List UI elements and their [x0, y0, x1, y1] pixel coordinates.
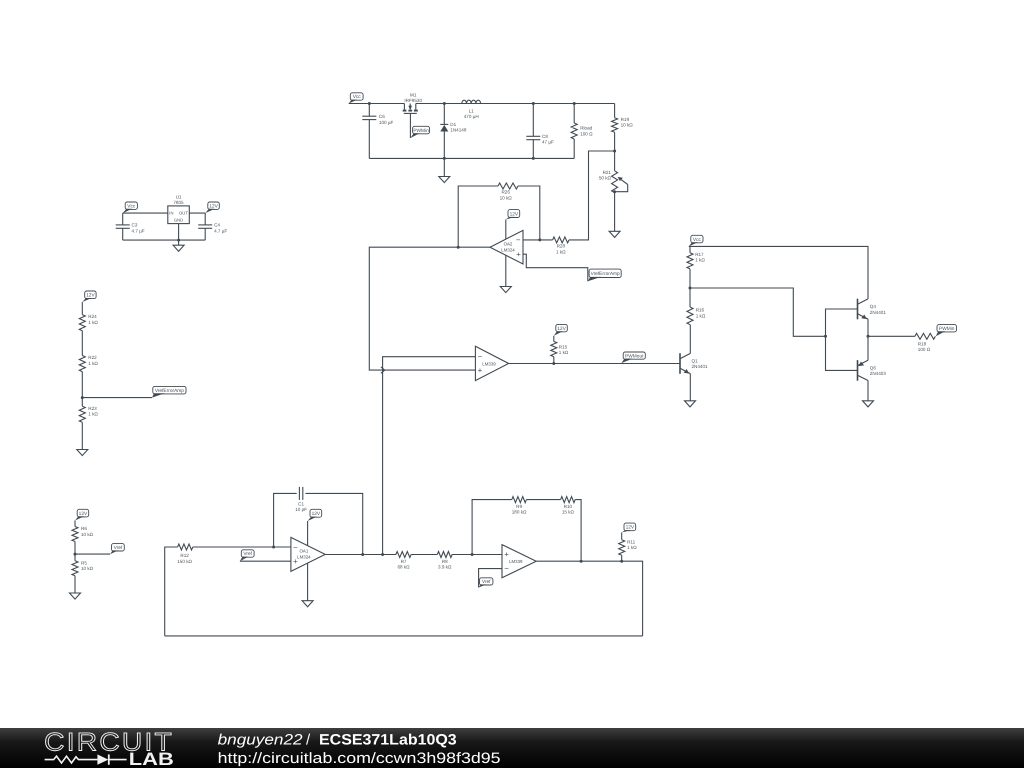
- wire buck bottom rail: [369, 157, 574, 159]
- wire R5 to ground: [74, 576, 76, 593]
- wire OA2 V- pin to ground: [505, 255, 507, 286]
- svg-text:12V: 12V: [79, 511, 88, 517]
- svg-text:R28: R28: [557, 244, 566, 249]
- junction R10/output: [580, 560, 583, 563]
- svg-text:12V: 12V: [510, 211, 519, 217]
- junction C1 tap: [272, 546, 275, 549]
- wire R9-R10: [526, 499, 560, 501]
- potentiometer R21 50k: [614, 151, 616, 171]
- resistor R28 1k: [553, 237, 569, 243]
- resistor R11 1k pull-up: [624, 523, 636, 531]
- svg-text:1N4148: 1N4148: [450, 128, 467, 133]
- resistor R24 1k: [79, 315, 85, 331]
- wire R9 feedback left leg: [472, 500, 512, 555]
- svg-text:PWMin: PWMin: [939, 326, 955, 332]
- wire base rail: [826, 309, 858, 370]
- capacitor C8 47uF: [532, 104, 534, 137]
- net flag PWMin (driver out): [937, 325, 957, 332]
- svg-text:1 kΩ: 1 kΩ: [88, 412, 98, 417]
- resistor R8 3.9k: [437, 552, 452, 558]
- net flag VrefErrorAmp (divider): [153, 386, 186, 394]
- junction push-pull output: [867, 335, 870, 338]
- resistor R17 1k: [687, 253, 693, 269]
- svg-text:Vref: Vref: [114, 545, 123, 551]
- svg-text:Vref: Vref: [243, 551, 252, 557]
- wire C1 right leg: [306, 493, 363, 554]
- transistor Q1 2N4401: [679, 353, 681, 374]
- svg-text:1 kΩ: 1 kΩ: [88, 320, 98, 325]
- wire crossing hop: [381, 367, 385, 373]
- svg-text:2N4401: 2N4401: [692, 364, 709, 369]
- op-amp OA1 LM324: [291, 537, 325, 571]
- svg-text:R10: R10: [564, 504, 573, 509]
- wire comparator2 output: [536, 561, 642, 636]
- junction C8 top: [532, 102, 535, 105]
- svg-text:R19: R19: [621, 117, 630, 122]
- svg-text:D1: D1: [450, 122, 456, 127]
- svg-text:M1: M1: [410, 92, 417, 97]
- comparator U LM339 (oscillator): [502, 545, 536, 578]
- svg-text:Q4: Q4: [870, 304, 877, 309]
- junction C6 top: [368, 102, 371, 105]
- svg-text:Vcc: Vcc: [693, 237, 702, 243]
- resistor R9 180k: [512, 497, 527, 503]
- capacitor C1 10pF: [298, 487, 300, 500]
- svg-text:150 kΩ: 150 kΩ: [177, 559, 192, 564]
- wire divider tap to R28 column: [569, 151, 615, 240]
- svg-text:U1: U1: [176, 195, 182, 200]
- net flag Vcc (buck input): [350, 93, 363, 100]
- junction R26 feedback tap: [457, 246, 460, 249]
- svg-text:OA2: OA2: [504, 242, 513, 247]
- junction D1 bottom: [443, 157, 446, 160]
- net flag PWMin (gate): [413, 126, 430, 134]
- wire R6 to tap: [74, 542, 76, 561]
- wire tap to VrefErrorAmp flag: [82, 397, 152, 399]
- svg-text:L1: L1: [469, 108, 475, 113]
- junction feedback divider: [613, 150, 616, 153]
- svg-text:12V: 12V: [209, 203, 218, 209]
- svg-text:7805: 7805: [173, 200, 184, 205]
- svg-text:Q1: Q1: [692, 358, 699, 363]
- svg-text:VrefErrorAmp: VrefErrorAmp: [155, 388, 184, 394]
- svg-text:LAB: LAB: [129, 749, 174, 768]
- svg-text:12V: 12V: [557, 326, 566, 332]
- svg-text:4.7 µF: 4.7 µF: [132, 228, 145, 233]
- svg-text:1 kΩ: 1 kΩ: [696, 313, 706, 318]
- ground (OA1): [302, 601, 313, 607]
- svg-text:R6: R6: [81, 526, 87, 531]
- svg-text:+: +: [504, 550, 509, 559]
- svg-text:VrefErrorAmp: VrefErrorAmp: [591, 271, 620, 277]
- op-amp OA2 LM324 (points left): [490, 230, 523, 264]
- wire M1 gate: [409, 113, 411, 138]
- wire R12 to OA1 minus: [193, 546, 291, 548]
- net flag 12V (7805 out): [208, 202, 220, 209]
- wire R24-R22: [81, 331, 83, 356]
- resistor R5 10k: [72, 561, 78, 576]
- svg-text:http://circuitlab.com/ccwn3h98: http://circuitlab.com/ccwn3h98f3d95: [218, 750, 501, 767]
- ground (buck): [439, 177, 450, 183]
- svg-text:10 kΩ: 10 kΩ: [500, 195, 513, 200]
- svg-text:2N4403: 2N4403: [870, 371, 887, 376]
- junction Vtri/output: [381, 553, 384, 556]
- wire 12V to R6: [74, 521, 76, 527]
- net flag Vref (OA1 +): [241, 550, 254, 557]
- wire R17 bottom: [689, 269, 691, 288]
- svg-text:Vcc: Vcc: [127, 203, 136, 209]
- svg-text:100 Ω: 100 Ω: [918, 347, 931, 352]
- resistor R19 10k: [614, 104, 616, 118]
- junction OA2 minus / R26: [538, 238, 541, 241]
- svg-text:Rload: Rload: [580, 126, 592, 131]
- svg-text:R21: R21: [603, 170, 612, 175]
- junction R11/output: [620, 560, 623, 563]
- svg-text:−: −: [478, 352, 483, 361]
- resistor R23 1k: [79, 406, 85, 422]
- ground (Q1): [685, 401, 696, 407]
- wire comparator2 minus to Vref: [479, 569, 502, 588]
- svg-text:C8: C8: [542, 134, 548, 139]
- svg-text:1 kΩ: 1 kΩ: [559, 350, 569, 355]
- svg-text:3.9 kΩ: 3.9 kΩ: [438, 565, 452, 570]
- wire Vcc to IN: [123, 212, 168, 214]
- svg-text:50 kΩ: 50 kΩ: [599, 176, 612, 181]
- wire R26 left leg: [458, 186, 498, 247]
- inductor L1 470uH: [462, 100, 481, 103]
- ground (Q6): [863, 401, 874, 407]
- resistor R18 100: [915, 333, 936, 339]
- ground (R21): [609, 231, 620, 237]
- svg-text:R16: R16: [696, 308, 705, 313]
- wire output to R18: [868, 335, 915, 337]
- net flag 12V (OA2 power): [508, 210, 520, 218]
- junction R15/output: [552, 362, 555, 365]
- capacitor C6: [368, 104, 370, 117]
- net flag VrefErrorAmp (OA2 +): [589, 269, 621, 277]
- resistor R7 68k: [396, 552, 411, 558]
- svg-text:1 kΩ: 1 kΩ: [627, 545, 637, 550]
- svg-text:+: +: [516, 250, 521, 259]
- svg-text:Q6: Q6: [870, 365, 877, 370]
- junction Rload top: [573, 102, 576, 105]
- svg-text:470 µH: 470 µH: [464, 114, 479, 119]
- svg-text:10 pF: 10 pF: [295, 507, 307, 512]
- ground (ref divider): [77, 450, 88, 456]
- wire R7-R8: [411, 554, 437, 556]
- svg-text:GND: GND: [174, 217, 183, 222]
- svg-text:68 kΩ: 68 kΩ: [397, 565, 410, 570]
- svg-text:R9: R9: [516, 504, 522, 509]
- svg-text:IN: IN: [169, 211, 173, 216]
- wire 12V to R24: [81, 302, 83, 315]
- wire R23 to ground: [81, 422, 83, 449]
- wire left feedback rail: [165, 547, 178, 636]
- resistor R16 1k: [687, 307, 693, 325]
- junction base rail: [824, 335, 827, 338]
- svg-text:R7: R7: [401, 559, 407, 564]
- wire R26 right leg: [518, 186, 540, 240]
- wire OA1 V+ pin: [307, 521, 309, 546]
- svg-text:10 kΩ: 10 kΩ: [621, 123, 634, 128]
- svg-text:OA1: OA1: [300, 549, 309, 554]
- resistor R10 15k: [561, 497, 576, 503]
- resistor R6 10k: [72, 527, 78, 542]
- ground (7805): [173, 245, 184, 251]
- junction C1/output: [361, 553, 364, 556]
- resistor R15 1k pull-up: [556, 324, 568, 331]
- svg-text:C3: C3: [132, 223, 138, 228]
- svg-text:R12: R12: [180, 553, 189, 558]
- svg-text:R11: R11: [627, 539, 636, 544]
- svg-text:R17: R17: [695, 252, 704, 257]
- wire ground stem (buck): [443, 158, 445, 176]
- junction R21 wiper: [613, 190, 616, 193]
- svg-text:10 kΩ: 10 kΩ: [81, 566, 94, 571]
- wire Vref to OA1 plus: [240, 560, 291, 562]
- svg-text:1 kΩ: 1 kΩ: [695, 258, 705, 263]
- svg-text:LM324: LM324: [501, 247, 515, 252]
- wire OA2 minus input: [523, 239, 553, 241]
- wire C1 left leg: [274, 493, 297, 547]
- net flag Vcc (7805 in): [125, 202, 137, 209]
- wire 7805 bottom rail: [123, 239, 206, 241]
- svg-text:−: −: [516, 236, 521, 245]
- wire R8 to comparator plus: [452, 554, 502, 556]
- IC U1 7805: [168, 206, 190, 224]
- svg-text:bnguyen22: bnguyen22: [218, 731, 304, 748]
- wire Q6 emitter to output node: [867, 336, 869, 360]
- svg-text:C4: C4: [214, 223, 220, 228]
- comparator U LM339 (PWM): [475, 346, 508, 380]
- net flag Vcc (driver): [691, 235, 703, 243]
- wire Q4 emitter to output node: [867, 319, 869, 336]
- junction R16/R17: [689, 287, 692, 290]
- junction D1 top: [443, 102, 446, 105]
- net flag Vref (divider): [112, 544, 125, 551]
- wire driver input to bases: [690, 288, 826, 336]
- svg-text:12V: 12V: [626, 525, 635, 531]
- transistor Q6 2N4403: [857, 360, 859, 381]
- svg-text:4.7 µF: 4.7 µF: [214, 228, 227, 233]
- junction ref divider tap: [81, 396, 84, 399]
- svg-text:OUT: OUT: [179, 211, 188, 216]
- net flag PWMout: [623, 352, 645, 359]
- resistor R12 150k: [178, 544, 193, 550]
- wire U1 GND pin: [178, 224, 180, 246]
- svg-text:R15: R15: [559, 344, 568, 349]
- svg-text:47 µF: 47 µF: [542, 140, 554, 145]
- footer bar: [0, 728, 1024, 768]
- transistor Q4 2N4401: [857, 299, 859, 320]
- svg-text:2N4401: 2N4401: [870, 310, 887, 315]
- svg-text:ECSE371Lab10Q3: ECSE371Lab10Q3: [319, 731, 457, 748]
- junction Vref tap: [74, 553, 77, 556]
- capacitor C3 4.7uF: [122, 213, 124, 225]
- wire R22 to tap: [81, 372, 83, 407]
- wire OA2 plus input: [523, 254, 588, 281]
- wire tap to Vref flag: [75, 553, 110, 555]
- svg-text:−: −: [293, 543, 298, 552]
- wire OA2 output to comparator (+): [369, 247, 490, 370]
- svg-text:R24: R24: [88, 314, 97, 319]
- wire Q1 collector to R16: [689, 325, 691, 354]
- svg-text:PWMin: PWMin: [413, 128, 429, 134]
- junction R9 feedback tap: [471, 553, 474, 556]
- wire Vtri to comparator minus: [383, 357, 476, 555]
- wire top rail right of M1: [416, 103, 615, 105]
- wire R10 right leg: [575, 500, 581, 562]
- svg-text:C6: C6: [379, 114, 385, 119]
- svg-text:R26: R26: [501, 190, 510, 195]
- svg-text:1 kΩ: 1 kΩ: [88, 361, 98, 366]
- svg-text:−: −: [504, 564, 509, 573]
- svg-text:R22: R22: [88, 355, 97, 360]
- net flag Vref (comp2 -): [480, 578, 493, 585]
- svg-text:R5: R5: [81, 560, 87, 565]
- svg-text:10 kΩ: 10 kΩ: [81, 532, 94, 537]
- svg-text:LM324: LM324: [297, 554, 311, 559]
- diode D1 1N4148: [443, 104, 445, 125]
- comparator output wire to Q1 base: [509, 363, 680, 365]
- svg-text:Vref: Vref: [482, 579, 491, 585]
- wire OA1 V- pin: [307, 563, 309, 601]
- wire Q6 collector to ground: [867, 381, 869, 401]
- svg-text:12V: 12V: [312, 511, 321, 517]
- resistor R22 1k: [79, 356, 85, 372]
- svg-text:R23: R23: [88, 406, 97, 411]
- svg-text:Vcc: Vcc: [353, 94, 362, 100]
- ground (OA2): [500, 287, 511, 293]
- svg-text:LM339: LM339: [509, 559, 523, 564]
- net flag 12V (ref divider): [85, 291, 96, 299]
- svg-text:+: +: [478, 366, 483, 375]
- svg-text:LM339: LM339: [482, 361, 496, 366]
- wire R16 top: [689, 288, 691, 307]
- wire OA2 V+ pin: [505, 220, 507, 240]
- net flag 12V (OA1 power): [310, 509, 322, 517]
- svg-text:15 kΩ: 15 kΩ: [562, 510, 575, 515]
- wire OUT to 12V: [189, 212, 205, 214]
- svg-text:IRF9530: IRF9530: [404, 98, 422, 103]
- svg-text:C1: C1: [298, 501, 304, 506]
- svg-text:1 kΩ: 1 kΩ: [556, 249, 566, 254]
- svg-text:100 Ω: 100 Ω: [580, 131, 593, 136]
- CircuitLab logo resistor-diode glyph: [45, 756, 98, 763]
- junction C8 bottom: [532, 157, 535, 160]
- svg-text:100 µF: 100 µF: [379, 120, 394, 125]
- wire Vcc rail to Q4 collector: [689, 246, 868, 299]
- wire Q1 emitter to ground: [689, 374, 691, 401]
- resistor R26 10k: [498, 183, 518, 189]
- svg-text:PWMout: PWMout: [625, 353, 644, 359]
- svg-text:R8: R8: [442, 559, 448, 564]
- wire top rail: [349, 103, 405, 105]
- ground (Vref divider): [70, 593, 81, 599]
- transistor M1 PMOS IRF9530: [403, 104, 405, 111]
- svg-text:R18: R18: [918, 341, 927, 346]
- svg-text:180 kΩ: 180 kΩ: [512, 510, 527, 515]
- wire oscillator bottom rail: [165, 635, 643, 637]
- svg-text:12V: 12V: [86, 293, 95, 299]
- capacitor C4 4.7uF: [204, 213, 206, 225]
- wire OA1 output row: [325, 554, 396, 556]
- resistor Rload 100: [573, 104, 575, 124]
- junction U1 GND: [177, 239, 180, 242]
- net flag 12V (Vref divider): [77, 509, 89, 517]
